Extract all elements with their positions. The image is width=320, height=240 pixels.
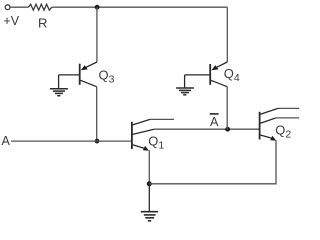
transistor Q4 xyxy=(185,62,228,87)
ground Q4 base xyxy=(176,75,194,95)
svg-text:Q4: Q4 xyxy=(224,66,240,84)
node A junction xyxy=(95,139,100,144)
wire Q1 emitter down xyxy=(148,150,150,184)
wire Q3 emitter feed xyxy=(96,7,98,62)
wire input A xyxy=(11,140,132,142)
ground emitters xyxy=(141,184,158,221)
junction dot xyxy=(95,5,100,10)
wire Q1 collector stub xyxy=(150,118,174,120)
svg-text:A: A xyxy=(210,115,219,129)
wire Q3 collector to node xyxy=(96,87,98,141)
svg-text:A: A xyxy=(2,134,11,148)
junction dot Abar xyxy=(225,127,230,132)
overbar xyxy=(210,113,219,115)
svg-text:R: R xyxy=(38,16,47,31)
wire node Abar xyxy=(154,128,260,130)
svg-text:Q1: Q1 xyxy=(148,133,164,151)
svg-text:Q3: Q3 xyxy=(99,67,115,85)
resistor R xyxy=(28,4,52,10)
svg-text:Q2: Q2 xyxy=(275,122,291,140)
wire bottom return xyxy=(149,140,276,184)
wire Q2 collector stub 2 xyxy=(276,117,299,119)
ground Q3 base xyxy=(50,75,68,96)
transistor Q2 xyxy=(260,108,278,140)
wire Q4 collector to node xyxy=(226,87,228,130)
wire xyxy=(10,6,28,8)
transistor Q1 xyxy=(132,119,154,150)
junction dot ground node xyxy=(147,181,152,186)
wire top rail xyxy=(52,6,228,8)
wire Q4 emitter feed xyxy=(226,7,228,62)
terminal +V xyxy=(5,5,10,10)
transistor Q3 xyxy=(59,62,97,87)
wire Q2 collector stub 1 xyxy=(278,107,299,109)
svg-text:+V: +V xyxy=(3,14,19,28)
